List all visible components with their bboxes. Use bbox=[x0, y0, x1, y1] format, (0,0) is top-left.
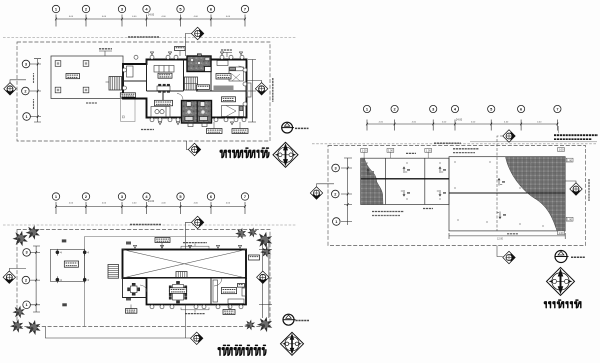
svg-text:1.00: 1.00 bbox=[388, 149, 394, 153]
plan 2 kitchen fixtures bbox=[213, 278, 246, 304]
plan 2 kitchen counter label bbox=[238, 284, 245, 288]
svg-text:1.00: 1.00 bbox=[362, 149, 368, 153]
plan 1 room label boxes bbox=[158, 73, 172, 78]
plan 1 southwest text bbox=[141, 129, 154, 131]
plan 3 left dimension line bbox=[341, 158, 352, 225]
plan 1 living room sofa bbox=[127, 66, 175, 78]
plan 1 left grid circles bbox=[22, 60, 30, 68]
plan 1 side tags bbox=[123, 68, 127, 72]
plan 3 road dashed line bbox=[312, 143, 597, 145]
plan 1 right dimension line bbox=[248, 60, 256, 123]
plan 2 porch outline bbox=[50, 249, 84, 281]
svg-text:1.00: 1.00 bbox=[426, 149, 432, 153]
plan 2 left section marker bbox=[3, 271, 15, 283]
plan 1 top callouts bbox=[99, 51, 112, 56]
plan 1 bottom section marker bbox=[188, 143, 200, 155]
plan 3 top right notes bbox=[554, 134, 598, 136]
svg-text:7: 7 bbox=[244, 194, 246, 199]
plan 2 dining table bbox=[169, 281, 187, 303]
svg-text:24.00: 24.00 bbox=[148, 200, 155, 203]
plan 1 door window tags top bbox=[134, 55, 138, 59]
plan 2 window tags bottom bbox=[150, 305, 154, 309]
svg-text:24.00: 24.00 bbox=[456, 119, 463, 122]
plan 2 ground marks bbox=[62, 239, 67, 242]
plan 3 top dimension line bbox=[367, 120, 557, 131]
plan 3 grid column circles bbox=[363, 105, 370, 112]
plan 1 balcony lower-left bbox=[121, 99, 135, 122]
plan 2 road text bbox=[130, 224, 161, 226]
plan 2 window marks hall top bbox=[133, 245, 136, 248]
plan 1 terrace columns bbox=[55, 61, 61, 67]
svg-text:24.00: 24.00 bbox=[148, 13, 155, 16]
plan 1 east balcony bbox=[247, 83, 252, 97]
plan 2 grid column circles bbox=[52, 193, 59, 200]
plan 1 right section marker bbox=[255, 83, 267, 95]
plan 2 trees top-left bbox=[13, 231, 28, 247]
plan 1 left section marker bbox=[4, 83, 16, 95]
svg-text:7: 7 bbox=[244, 6, 246, 11]
plan 2 title label bbox=[218, 345, 266, 355]
plan 2 platform lines bbox=[85, 237, 247, 327]
plan 2 bottom-center bracket bbox=[181, 308, 209, 313]
plan 1 road dashed line bbox=[3, 37, 296, 39]
plan 1 bathroom vent bbox=[197, 54, 201, 56]
plan 2 top section marker bbox=[191, 216, 203, 228]
plan 1 corridor text bbox=[214, 86, 234, 91]
plan 2 left dimension line bbox=[30, 246, 40, 312]
plan 2 right dimension lines bbox=[259, 240, 272, 318]
plan 2 porch columns bbox=[56, 249, 62, 256]
plan 2 hall callout bbox=[155, 238, 170, 243]
plan 3 right roof divider over hatch bbox=[449, 192, 565, 194]
plan 3 left roof hatch bbox=[361, 158, 383, 204]
svg-text:1.00: 1.00 bbox=[558, 231, 564, 235]
plan 3 slope arrows bbox=[371, 171, 374, 173]
plan 3 texts around roof bbox=[406, 152, 416, 154]
plan 3 left roof divider over hatch bbox=[361, 178, 449, 180]
plan 3 left grid circles bbox=[332, 164, 340, 172]
plan 1 bathroom top dark room bbox=[187, 56, 211, 72]
plan 3 right roof panels bbox=[449, 157, 565, 231]
plan 3 boundary dashed border bbox=[328, 146, 586, 246]
svg-text:1.00: 1.00 bbox=[558, 148, 564, 152]
plan 2 hall outline with cross bracing bbox=[123, 250, 247, 279]
plan 1 bathrooms bottom dark rooms bbox=[182, 101, 212, 124]
plan 3 top section marker bbox=[503, 130, 515, 142]
plan 3 right vertical text bbox=[588, 179, 590, 201]
plan 2 right section marker bbox=[257, 271, 269, 283]
plan 2 hall stair bbox=[176, 272, 187, 281]
plan 2 west annex bbox=[123, 278, 147, 298]
plan 1 building outline bbox=[123, 60, 247, 118]
svg-text:12.00: 12.00 bbox=[497, 238, 504, 241]
plan 1 top section marker bbox=[191, 27, 203, 39]
plan 3 panel dots bbox=[454, 161, 455, 162]
plan 2 porch label bbox=[64, 261, 78, 267]
plan 1 north symbol bbox=[282, 122, 294, 133]
svg-text:7: 7 bbox=[556, 106, 558, 111]
plan 2 compass bbox=[281, 332, 304, 355]
plan 2 lower rooms outline bbox=[147, 278, 247, 305]
plan 1 terrace label bbox=[66, 74, 80, 79]
plan 1 dining table bbox=[157, 84, 170, 92]
plan 2 bottom stem line bbox=[45, 305, 190, 339]
plan 2 bottom label boxes bbox=[223, 310, 235, 315]
plan 1 top dimension line bbox=[56, 15, 245, 27]
plan 3 right roof hatch bbox=[506, 157, 566, 231]
svg-text:1.00: 1.00 bbox=[567, 158, 573, 162]
plan 1 grid column circles bbox=[52, 5, 59, 12]
plan 3 dim boxes top bbox=[361, 149, 368, 153]
plan 1 road text bbox=[128, 36, 159, 38]
plan 3 note callout line bbox=[558, 126, 560, 133]
plan 1 central staircase bbox=[185, 77, 198, 90]
plan 1 terrace staircase bbox=[109, 77, 122, 91]
plan 3 north symbol bbox=[555, 251, 569, 263]
plan 2 left grid circles bbox=[23, 249, 31, 257]
plan 1 bedroom4 bed top-right bbox=[217, 61, 246, 82]
plan 3 dim boxes right bbox=[558, 148, 565, 152]
plan 3 left section marker bbox=[310, 187, 322, 199]
plan 2 trees bottom-right bbox=[244, 320, 255, 331]
plan 3 right section marker bbox=[570, 183, 582, 195]
plan 2 kitchen label box bbox=[221, 288, 236, 294]
plan 3 bottom dimension line bbox=[449, 233, 565, 239]
plan 2 bottom section marker bbox=[191, 332, 203, 344]
plan 2 trees top-right bbox=[235, 228, 246, 239]
plan 2 west table bbox=[128, 283, 140, 295]
plan 1 compass bbox=[273, 142, 298, 167]
svg-text:1.00: 1.00 bbox=[567, 217, 573, 221]
plan 1 bedroom3 bed bottom-left bbox=[151, 94, 183, 118]
plan 2 road dashed line bbox=[3, 224, 296, 226]
plan 2 kitchen wall bbox=[210, 278, 212, 305]
plan 3 bottom section marker bbox=[503, 251, 515, 263]
plan 1 left dimension line bbox=[30, 59, 41, 122]
plan 1 bottom label boxes bbox=[207, 129, 223, 134]
plan 3 left roof panels bbox=[361, 158, 449, 204]
plan 1 interior walls bbox=[123, 60, 247, 118]
plan 1 bedroom2 bed bottom-right bbox=[222, 106, 244, 117]
plan 1 title label bbox=[220, 148, 269, 157]
plan 1 septic vents bbox=[188, 123, 193, 127]
plan 2 dining label box bbox=[170, 288, 187, 294]
plan 2 trees bottom-left bbox=[13, 306, 25, 319]
plan 3 compass bbox=[547, 267, 575, 295]
plan 2 outside stair bbox=[108, 265, 119, 279]
plan 2 boundary dashed border bbox=[17, 230, 270, 327]
plan 3 title label bbox=[544, 300, 580, 308]
plan 1 boundary dashed border bbox=[17, 42, 270, 141]
plan 1 terrace outline bbox=[51, 56, 123, 99]
plan 3 road text bbox=[434, 142, 461, 144]
plan 1 door window tags bottom bbox=[150, 118, 154, 122]
plan 1 left dim texts bbox=[33, 73, 35, 83]
plan 2 top-center callout bracket bbox=[181, 244, 209, 249]
plan 2 top dimension line bbox=[56, 202, 245, 214]
plan 1 right vertical text bbox=[272, 78, 274, 102]
plan 1 west label box bbox=[120, 93, 135, 97]
plan 2 north symbol bbox=[283, 314, 296, 325]
plan 1 balcony label text bbox=[86, 102, 97, 104]
plan 2 hall east label box bbox=[249, 255, 260, 260]
